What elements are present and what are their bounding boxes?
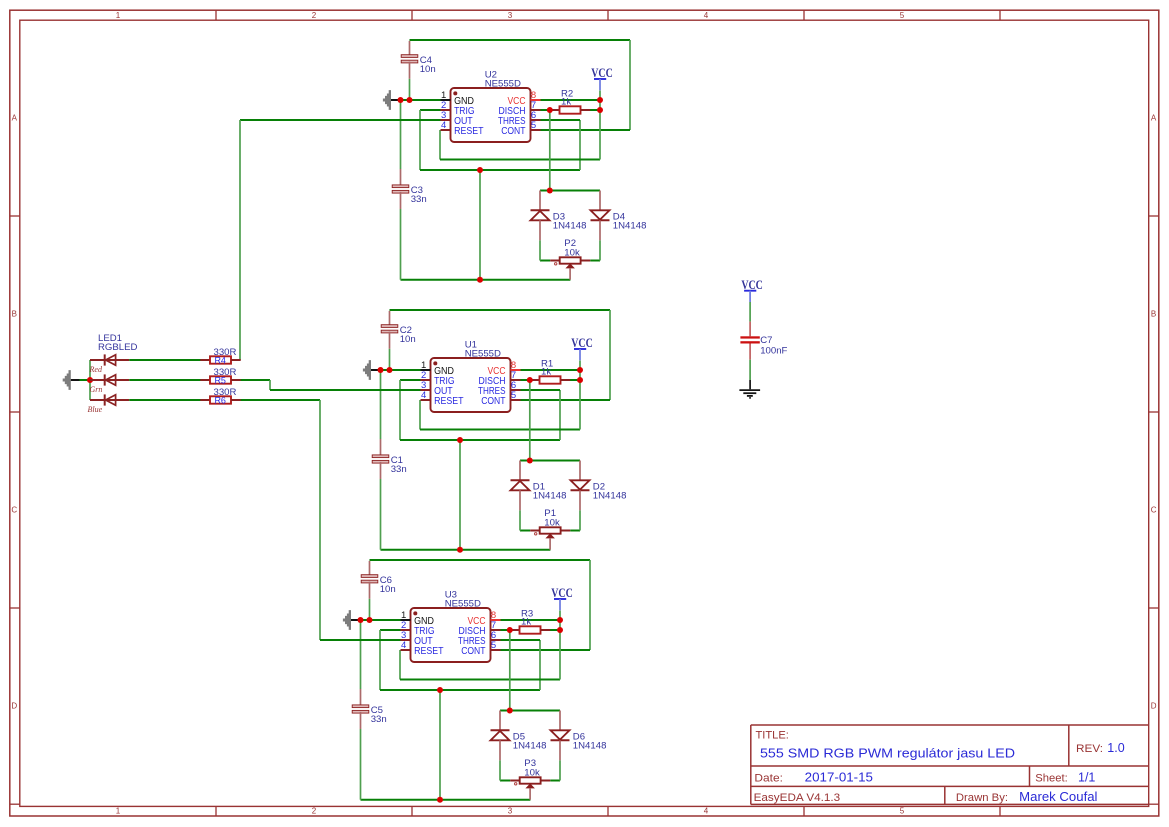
svg-text:5: 5 [900,11,905,20]
svg-text:10k: 10k [564,248,580,259]
wire U1 bottom rail [381,549,551,551]
svg-text:33n: 33n [391,464,407,475]
title block frame [751,725,1149,804]
svg-text:1N4148: 1N4148 [573,741,607,752]
svg-text:C: C [1151,505,1157,514]
value Drawn By Marek Coufal [1019,790,1097,804]
U1 pin numbers left [421,360,426,401]
U1 pin 4 stub [421,399,431,401]
svg-text:5: 5 [531,120,536,131]
wire OUT U3 to R6 path [240,400,401,640]
svg-text:1k: 1k [521,616,531,627]
wire U2 pot right link [590,260,600,262]
label C1 value [391,455,407,475]
power VCC U1 [571,335,593,360]
LED LED1 red element [90,354,201,365]
label C2 value [400,325,416,345]
wire U2 diode top rail [540,190,600,192]
wire U1 THRES vertical [559,390,561,440]
label LED1 RGBLED [98,333,138,353]
wire U2 CONT pin5 horizontal [541,129,631,131]
wire U3 timing tap vertical [439,690,441,800]
potentiometer P2 10k [550,257,590,279]
wire U1 RESET vertical [419,400,421,430]
wire U1 R1 output horizontal [570,379,580,381]
node U1 GND-C2 junction [387,367,393,373]
U3 pin 2 stub [401,629,411,631]
svg-text:330R: 330R [214,347,237,358]
timer IC U2 NE555D body [451,88,531,142]
svg-text:VCC: VCC [591,65,613,80]
wire U1 RESET-VCC horizontal [420,429,580,431]
node U2 diode rail junction [547,188,553,194]
wire U3 VCC vertical [559,611,561,680]
svg-text:D: D [1151,701,1157,710]
capacitor C3 33n [392,100,409,280]
label LED1 green pin name [90,385,103,394]
svg-text:4: 4 [401,640,406,651]
label TITLE [756,730,789,742]
wire U2 pot left link [540,260,550,262]
capacitor C5 33n [352,620,369,800]
wire U3 TRIG stub horizontal [380,629,401,631]
svg-text:RGBLED: RGBLED [98,342,138,353]
wire U2 GND row horizontal [391,99,441,101]
U3 pin 3 stub [401,639,411,641]
wire U1 timing tap vertical [459,440,461,550]
wire LED cathode rail vertical [89,360,91,400]
node U3 DISCH junction [507,627,513,633]
wire OUT U2 to R4 horizontal [240,119,441,121]
U2 pin 1 stub [441,99,451,101]
svg-text:10n: 10n [400,334,416,345]
U1 pin 6 stub [511,389,521,391]
label Date [754,772,783,784]
label R1 value [541,359,553,378]
diode D2 1N4148 [571,461,590,511]
value Date 2017-01-15 [805,770,873,784]
svg-text:VCC: VCC [551,585,573,600]
frame left band end cap [10,803,20,805]
U3 pin 4 stub [401,649,411,651]
label D4 value [613,212,647,232]
node U1 R1-VCC junction [577,377,583,383]
node U3 bottom rail junction [437,797,443,803]
svg-text:REV:: REV: [1076,743,1103,755]
wire R4 vertical riser [239,120,241,360]
svg-text:10n: 10n [420,64,436,75]
node U2 GND-C3 junction [398,97,404,103]
wire U2 VCC vertical [599,91,601,160]
wire U3 pin8 VCC horizontal [501,619,561,621]
LED LED1 blue element [90,394,201,405]
node U1 diode rail junction [527,458,533,464]
label R4 value 330R [214,347,237,358]
svg-text:Drawn By:: Drawn By: [956,792,1008,804]
wire U1 VCC vertical [579,361,581,430]
ground U3 (stepped) [343,610,351,630]
node U2 DISCH junction [547,107,553,113]
U3 pin numbers left [401,610,406,651]
svg-text:5: 5 [491,640,496,651]
U3 pin 5 stub [491,649,501,651]
wire VCC to C7 vertical [749,302,751,322]
svg-text:Blue: Blue [88,405,103,414]
wire U1 TRIG-THRES bottom horizontal [400,439,560,441]
node U1 pin8-VCC junction [577,367,583,373]
label EasyEDA version [754,792,841,804]
svg-text:TITLE:: TITLE: [756,730,789,742]
svg-text:Grn: Grn [90,385,103,394]
power VCC C7 branch [741,277,763,302]
svg-text:330R: 330R [214,387,237,398]
U3 pin 7 stub [491,629,501,631]
wire U2 diode left lower vertical [539,240,541,260]
node U3 R3-VCC junction [557,627,563,633]
svg-text:330R: 330R [214,367,237,378]
svg-text:2: 2 [312,11,317,20]
label P2 value [564,238,580,258]
svg-text:C: C [11,505,17,514]
label Drawn By [956,792,1008,804]
wire U2 RESET vertical [439,130,441,160]
wire U3 GND row horizontal [351,619,401,621]
U1 pin 5 stub [511,399,521,401]
wire U1 CONT loop vertical [609,310,611,400]
U3 pin names left [414,616,443,657]
resistor R3 1k [510,626,550,633]
resistor R2 1k [550,106,590,113]
svg-text:RESET: RESET [414,646,443,657]
U2 pin names left [454,96,483,137]
LED LED1 green element [90,374,201,385]
U3 pin 1 stub [401,619,411,621]
label R3 value [521,609,533,628]
U1 pin names left [434,366,463,407]
svg-text:A: A [12,113,18,122]
diode D6 1N4148 [551,711,570,761]
svg-text:5: 5 [511,390,516,401]
wire U1 GND row horizontal [371,369,421,371]
node U2 pin8-VCC junction [597,97,603,103]
label D6 value [573,732,607,752]
wire U3 diode top rail [500,710,560,712]
wire LED ground lead [71,379,90,381]
node U3 pin8-VCC junction [557,617,563,623]
resistor R1 1k [530,376,570,383]
label LED1 blue pin name [88,405,103,414]
U2 pin numbers right [531,90,536,131]
label U1 NE555D [465,339,501,359]
wire U3 R3 output horizontal [550,629,560,631]
diode D3 1N4148 [531,191,550,241]
node U1 GND-C1 junction [378,367,384,373]
label Sheet [1035,772,1068,784]
U1 pin 1 stub [421,369,431,371]
node U3 GND-C6 junction [367,617,373,623]
svg-text:RESET: RESET [454,126,483,137]
ground U2 (stepped) [383,90,391,110]
wire U2 RESET-VCC horizontal [440,159,600,161]
potentiometer P1 10k [530,527,570,549]
wire U1 pin8 VCC horizontal [521,369,581,371]
wire U1 pot left link [520,530,530,532]
U2 pin 8 stub [531,99,541,101]
wire U3 CONT loop top rail [370,559,591,561]
node U3 diode rail junction [507,708,513,714]
value Sheet 1/1 [1078,770,1095,784]
wire C7 ground lead black [749,380,751,389]
svg-text:1k: 1k [561,96,571,107]
U3 pin 8 stub [491,619,501,621]
svg-text:555 SMD RGB PWM regulátor jasu: 555 SMD RGB PWM regulátor jasu LED [760,746,1015,761]
wire U3 DISCH horizontal [501,629,511,631]
frame row ticks right [1149,216,1159,608]
wire U2 CONT loop top rail [410,39,631,41]
U2 pin 5 stub [531,129,541,131]
title text 555 SMD RGB PWM regulator [760,746,1015,761]
label LED1 red pin name [89,365,103,374]
wire OUT U1 to R5 path [240,380,421,390]
svg-text:1: 1 [116,806,121,815]
svg-text:2: 2 [312,806,317,815]
wire U3 pot right link [550,780,560,782]
wire U3 pot left link [500,780,510,782]
U2 pin 7 stub [531,109,541,111]
resistor R4 330R [200,355,240,365]
U3 pin 6 stub [491,639,501,641]
U1 pin 3 stub [421,389,431,391]
wire U3 TRIG-THRES bottom horizontal [380,689,540,691]
frame right band end cap [1149,803,1159,805]
wire U1 diode left lower vertical [519,510,521,530]
wire U1 pot right link [570,530,580,532]
label U2 NE555D [485,69,521,89]
label U3 NE555D [445,589,481,609]
frame column numbers top [116,11,905,20]
wire U3 THRES vertical [539,640,541,690]
wire U1 diode top rail [520,460,580,462]
svg-text:1N4148: 1N4148 [553,221,587,232]
svg-text:100nF: 100nF [760,345,787,356]
node U3 TRIG-THRES tap junction [437,687,443,693]
U2 pin 3 stub [441,119,451,121]
svg-text:CONT: CONT [461,646,485,657]
label P1 value [544,508,560,528]
svg-text:VCC: VCC [571,335,593,350]
label REV [1076,743,1103,755]
wire U1 CONT pin5 horizontal [521,399,611,401]
wire U3 RESET vertical [399,650,401,680]
svg-text:1N4148: 1N4148 [593,491,627,502]
wire U3 diode left lower vertical [499,760,501,780]
frame row ticks left [10,216,20,608]
label C6 value [380,575,396,595]
label R2 value [561,89,573,108]
capacitor C7 100nF [740,322,759,360]
wire C7 to ground vertical [749,360,751,380]
svg-text:10k: 10k [524,768,540,779]
frame column ticks top [216,10,1000,20]
svg-text:1N4148: 1N4148 [533,491,567,502]
svg-text:1N4148: 1N4148 [613,221,647,232]
svg-text:Date:: Date: [754,772,783,784]
svg-text:3: 3 [508,11,513,20]
svg-text:4: 4 [441,120,446,131]
svg-text:2017-01-15: 2017-01-15 [805,770,873,784]
resistor R5 330R [200,375,240,385]
wire U2 bottom rail [401,279,571,281]
label C4 value [420,55,436,75]
label R5 value 330R [214,367,237,378]
node U2 TRIG-THRES tap junction [477,167,483,173]
U2 pin numbers left [441,90,446,131]
diode D1 1N4148 [511,461,530,511]
capacitor C4 10n [401,41,418,100]
U2 pin names right [498,96,526,137]
wire U3 diode right lower vertical [559,760,561,780]
svg-text:1: 1 [116,11,121,20]
wire U2 THRES vertical [579,120,581,170]
svg-text:33n: 33n [411,194,427,205]
svg-text:33n: 33n [371,714,387,725]
label D1 value [533,482,567,502]
wire U1 TRIG stub horizontal [400,379,421,381]
wire U1 TRIG vertical [399,380,401,440]
svg-text:NE555D: NE555D [445,598,481,609]
svg-text:1k: 1k [541,366,551,377]
svg-text:1.0: 1.0 [1107,741,1124,755]
capacitor C6 10n [361,561,378,620]
wire U2 DISCH-diodes vertical [549,110,551,191]
svg-text:Red: Red [89,365,103,374]
svg-text:B: B [1151,309,1156,318]
capacitor C2 10n [381,311,398,370]
U1 pin 7 stub [511,379,521,381]
svg-text:CONT: CONT [501,126,525,137]
wire U2 pin8 VCC horizontal [541,99,601,101]
svg-text:Sheet:: Sheet: [1035,772,1068,784]
label C7 value [760,335,787,356]
U3 pin names right [458,616,486,657]
wire U3 THRES horizontal [501,639,541,641]
power VCC U3 [551,585,573,610]
svg-text:10k: 10k [544,518,560,529]
wire U3 DISCH-diodes vertical [509,630,511,711]
svg-text:VCC: VCC [741,277,763,292]
wire U2 TRIG stub horizontal [420,109,441,111]
svg-text:3: 3 [508,806,513,815]
wire U2 diode right lower vertical [599,240,601,260]
potentiometer P3 10k [510,777,550,799]
wire U2 DISCH horizontal [541,109,551,111]
wire U2 TRIG vertical [419,110,421,170]
wire U2 timing tap vertical [479,170,481,280]
svg-text:NE555D: NE555D [485,78,521,89]
node U1 bottom rail junction [457,547,463,553]
ground C7 (earth) [739,390,760,398]
wire U1 DISCH-diodes vertical [529,380,531,461]
node U2 bottom rail junction [477,277,483,283]
svg-text:B: B [12,309,17,318]
label D2 value [593,482,627,502]
wire U3 CONT loop vertical [589,560,591,650]
frame column numbers bottom [116,806,905,815]
wire U1 CONT loop top rail [390,309,611,311]
wire U2 TRIG-THRES bottom horizontal [420,169,580,171]
svg-text:A: A [1151,113,1157,122]
svg-text:RESET: RESET [434,396,463,407]
wire U3 bottom rail [361,799,531,801]
node U3 GND-C5 junction [358,617,364,623]
wire U1 DISCH horizontal [521,379,531,381]
power VCC U2 [591,65,613,90]
svg-text:4: 4 [704,11,709,20]
svg-text:4: 4 [421,390,426,401]
U2 pin 6 stub [531,119,541,121]
wire U3 CONT pin5 horizontal [501,649,591,651]
svg-text:Marek Coufal: Marek Coufal [1019,790,1097,804]
wire U2 THRES horizontal [541,119,581,121]
svg-text:D: D [11,701,17,710]
ground LED common (stepped) [63,370,71,390]
frame row letters left [11,113,17,710]
value REV 1.0 [1107,741,1124,755]
svg-text:CONT: CONT [481,396,505,407]
node U1 TRIG-THRES tap junction [457,437,463,443]
label C3 value [411,185,427,205]
wire U3 RESET-VCC horizontal [400,679,560,681]
label D3 value [553,212,587,232]
label P3 value [524,758,540,778]
U3 pin numbers right [491,610,496,651]
wire U2 CONT loop vertical [629,40,631,130]
timer IC U3 NE555D body [411,608,491,662]
wire U1 diode right lower vertical [579,510,581,530]
label C5 value [371,705,387,725]
U2 pin 4 stub [441,129,451,131]
timer IC U1 NE555D body [431,358,511,412]
node U1 DISCH junction [527,377,533,383]
wire U2 R2 output horizontal [590,109,600,111]
U1 pin names right [478,366,506,407]
svg-text:5: 5 [900,806,905,815]
node U2 GND-C4 junction [407,97,413,103]
node U2 R2-VCC junction [597,107,603,113]
diode D4 1N4148 [591,191,610,241]
frame row letters right [1151,113,1157,710]
node LED cathode junction [87,377,93,383]
svg-text:1/1: 1/1 [1078,770,1095,784]
diode D5 1N4148 [491,711,510,761]
svg-text:1N4148: 1N4148 [513,741,547,752]
frame column ticks bottom [216,806,1000,816]
U1 pin 2 stub [421,379,431,381]
U2 pin 2 stub [441,109,451,111]
svg-text:NE555D: NE555D [465,348,501,359]
resistor R6 330R [200,395,240,405]
capacitor C1 33n [372,370,389,550]
label D5 value [513,732,547,752]
svg-text:EasyEDA V4.1.3: EasyEDA V4.1.3 [754,792,841,804]
label R6 value 330R [214,387,237,398]
wire U3 TRIG vertical [379,630,381,690]
U1 pin numbers right [511,360,516,401]
svg-text:4: 4 [704,806,709,815]
svg-text:10n: 10n [380,584,396,595]
ground U1 (stepped) [363,360,371,380]
wire U1 THRES horizontal [521,389,561,391]
